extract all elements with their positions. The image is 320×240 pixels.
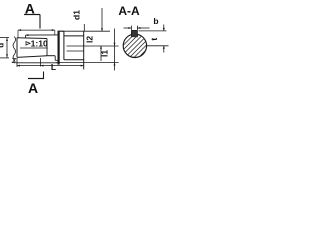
section mark A top — [24, 0, 40, 28]
middle section of shaft — [47, 56, 58, 61]
keyway line in right cylinder — [67, 50, 84, 52]
svg-text:d1: d1 — [72, 10, 82, 20]
svg-text:l1: l1 — [100, 50, 110, 57]
key on cone (top line) — [25, 34, 57, 38]
right cylinder — [64, 31, 84, 69]
svg-text:l2: l2 — [85, 36, 95, 43]
key in section — [131, 30, 137, 37]
taper symbol 1:10 — [26, 39, 48, 49]
collar / housing face — [58, 31, 64, 64]
svg-text:d: d — [0, 43, 6, 48]
svg-text:1:10: 1:10 — [31, 39, 48, 49]
dimension l1 — [100, 29, 116, 71]
centerline across cone — [20, 47, 48, 49]
section mark A bottom — [28, 72, 44, 97]
section circle with hatching — [116, 27, 166, 81]
shaft end face — [16, 38, 18, 58]
svg-text:A-A: A-A — [118, 4, 140, 18]
dimension d1 — [72, 10, 85, 31]
section view label A-A — [118, 4, 140, 18]
small zigzag mark bottom left — [12, 59, 16, 63]
extension line center right — [67, 45, 119, 47]
cone outline taper 1:10 — [17, 38, 47, 58]
extension line bottom right — [57, 62, 119, 64]
dimension b — [124, 16, 159, 30]
svg-text:L: L — [51, 62, 56, 72]
svg-text:t: t — [149, 38, 159, 41]
break wavy line at shaft tip — [13, 37, 15, 64]
svg-text:A: A — [28, 80, 38, 96]
extension line top right — [58, 30, 110, 32]
dimension line above shaft (tip to thread end) — [18, 29, 55, 38]
bottom dimension L and chain — [16, 58, 84, 72]
dimension d (left diameter) — [0, 37, 9, 58]
svg-text:b: b — [153, 16, 158, 26]
dimension t — [139, 25, 169, 53]
dimension l2 — [85, 8, 104, 61]
